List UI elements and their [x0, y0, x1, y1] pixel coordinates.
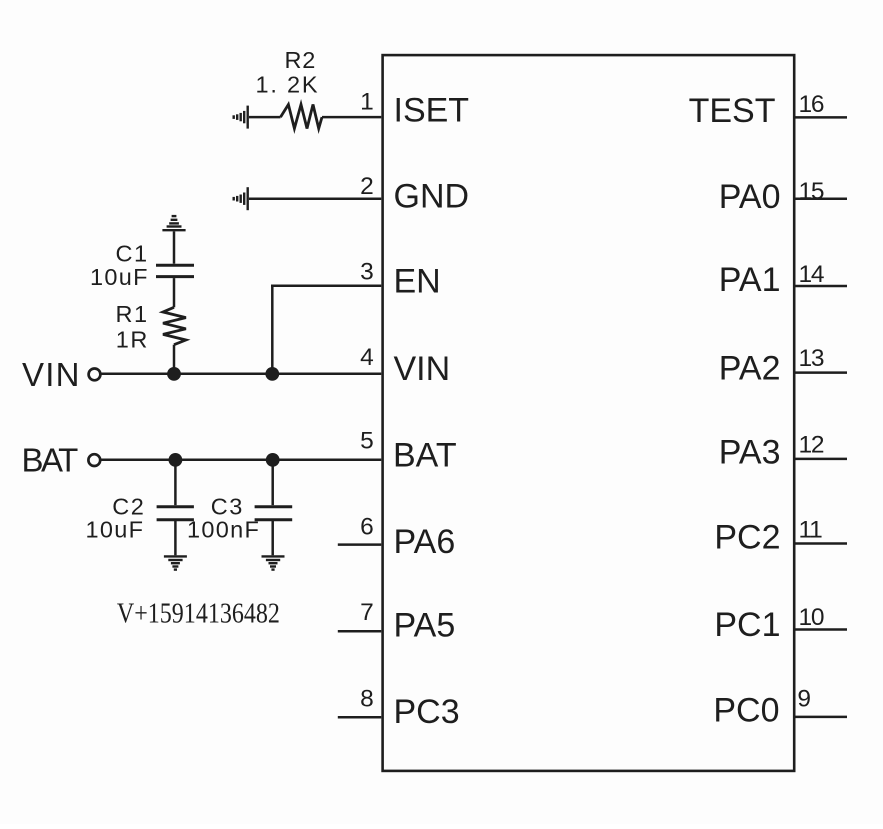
- wire pin 14 stub: [796, 285, 848, 288]
- capacitor C2: [157, 507, 194, 520]
- svg-text:TEST: TEST: [689, 92, 776, 130]
- svg-text:10: 10: [799, 604, 824, 631]
- terminal VIN circle: [89, 369, 101, 381]
- svg-text:C1: C1: [116, 240, 149, 266]
- junction dot BAT/C3: [266, 453, 280, 467]
- svg-text:8: 8: [360, 686, 373, 713]
- svg-text:PA3: PA3: [719, 433, 781, 471]
- wire pin 13 stub: [796, 371, 848, 374]
- ground (R2 left): [234, 106, 248, 129]
- wire BAT to C2: [174, 460, 177, 506]
- svg-text:2: 2: [360, 173, 373, 200]
- wire ground to R2: [249, 116, 281, 119]
- svg-text:10uF: 10uF: [86, 516, 145, 542]
- junction dot VIN/EN: [265, 367, 279, 381]
- svg-text:3: 3: [360, 259, 373, 286]
- wire BAT net: [101, 458, 382, 461]
- capacitor C1: [156, 265, 194, 276]
- wire pin 6 stub: [338, 543, 382, 546]
- svg-text:EN: EN: [394, 262, 441, 300]
- wire BAT to C3: [271, 460, 274, 506]
- svg-text:9: 9: [797, 685, 810, 712]
- wire EN riser: [271, 286, 274, 374]
- svg-text:V+15914136482: V+15914136482: [117, 599, 280, 630]
- wire pin 9 stub: [796, 716, 848, 719]
- svg-text:PC3: PC3: [394, 693, 460, 731]
- svg-text:15: 15: [799, 178, 824, 205]
- svg-text:BAT: BAT: [393, 436, 457, 474]
- terminal BAT circle: [88, 454, 100, 466]
- svg-text:11: 11: [799, 516, 823, 543]
- svg-text:BAT: BAT: [22, 442, 79, 479]
- svg-text:GND: GND: [394, 177, 470, 215]
- svg-text:14: 14: [799, 261, 824, 288]
- svg-text:ISET: ISET: [394, 91, 470, 129]
- wire pin 11 stub: [796, 542, 848, 545]
- resistor R1: [163, 307, 186, 344]
- svg-text:1. 2K: 1. 2K: [256, 72, 320, 98]
- junction dot VIN/R1: [167, 367, 181, 381]
- svg-text:PC0: PC0: [713, 691, 779, 729]
- wire pin 2: [249, 197, 381, 200]
- svg-text:16: 16: [799, 91, 824, 118]
- svg-text:13: 13: [799, 345, 824, 372]
- svg-text:R1: R1: [116, 301, 149, 327]
- wire pin 7 stub: [338, 630, 382, 633]
- svg-text:7: 7: [360, 599, 373, 626]
- svg-text:PA5: PA5: [394, 606, 456, 644]
- resistor R2: [281, 105, 323, 129]
- wire R1 to VIN net: [173, 345, 176, 374]
- svg-text:10uF: 10uF: [90, 264, 149, 290]
- svg-text:PA2: PA2: [719, 350, 781, 388]
- IC U1 body: [383, 55, 795, 771]
- junction dot BAT/C2: [169, 453, 183, 467]
- svg-text:PA0: PA0: [719, 178, 781, 216]
- wire ground to C1: [173, 231, 176, 263]
- wire VIN net: [101, 372, 381, 375]
- svg-text:5: 5: [360, 428, 373, 455]
- wire pin 10 stub: [796, 628, 848, 631]
- wire C2 to ground: [174, 521, 177, 555]
- svg-text:PA6: PA6: [394, 523, 456, 561]
- wire R2 to pin 1: [322, 116, 381, 119]
- svg-text:R2: R2: [285, 47, 317, 73]
- svg-text:1: 1: [360, 88, 373, 115]
- svg-text:VIN: VIN: [394, 350, 451, 388]
- wire EN to pin 3: [271, 285, 381, 288]
- ground (GND pin 2): [234, 187, 248, 210]
- ground (C1 top): [162, 216, 185, 230]
- svg-text:PC1: PC1: [714, 606, 780, 644]
- svg-text:6: 6: [360, 514, 373, 541]
- svg-text:1R: 1R: [116, 327, 149, 353]
- ground (C3): [262, 556, 285, 569]
- wire pin 16 stub: [796, 116, 848, 119]
- wire C1 to R1: [173, 278, 176, 307]
- wire pin 12 stub: [796, 458, 848, 461]
- wire pin 8 stub: [338, 716, 382, 719]
- capacitor C3: [255, 507, 293, 520]
- svg-text:PC2: PC2: [714, 519, 780, 557]
- svg-text:VIN: VIN: [22, 356, 81, 393]
- wire C3 to ground: [271, 521, 274, 555]
- wire pin 15 stub: [796, 197, 848, 200]
- svg-text:4: 4: [360, 344, 373, 371]
- svg-text:PA1: PA1: [719, 261, 781, 299]
- svg-text:12: 12: [799, 432, 824, 459]
- ground (C2): [164, 556, 187, 569]
- svg-text:100nF: 100nF: [187, 516, 260, 542]
